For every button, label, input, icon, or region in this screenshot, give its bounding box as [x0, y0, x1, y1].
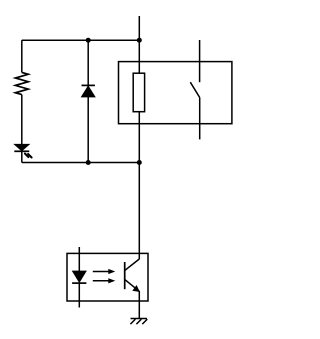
relay K1 coil: [133, 73, 144, 112]
relay contact blade: [190, 82, 199, 97]
wire coil to bottom junction and on to optocoupler collector: [138, 112, 140, 260]
ground hatch 3: [142, 319, 147, 324]
opto LED cathode bar: [72, 282, 86, 284]
wire left rail middle: [21, 95, 23, 145]
node junction top-left: [86, 38, 91, 43]
LED D2 triangle: [15, 145, 29, 151]
coupling arrow upper: [93, 269, 116, 274]
resistor R1: [15, 72, 28, 94]
diode D1 cathode bar: [82, 84, 95, 86]
LED D2 emission arrow 1: [25, 154, 29, 158]
wire diode branch: [87, 40, 89, 162]
ground hatch 1: [130, 319, 135, 324]
phototransistor Q1 collector: [125, 259, 139, 270]
opto LED anode lead: [78, 247, 80, 271]
wire top rail: [22, 39, 140, 41]
opto LED cathode lead: [78, 283, 80, 307]
opto LED triangle: [73, 271, 86, 282]
LED D2 emission arrow 2: [28, 154, 32, 158]
wire top junction to relay coil: [138, 40, 140, 73]
phototransistor Q1 base bar: [124, 262, 126, 289]
relay contact upper lead: [199, 40, 201, 82]
node junction top-right: [137, 38, 142, 43]
diode D1 triangle: [82, 86, 95, 97]
ground bar: [131, 318, 148, 320]
wire emitter to ground: [138, 291, 140, 319]
node junction bottom-right: [137, 160, 142, 165]
ground hatch 2: [136, 319, 141, 324]
wire bottom rail: [22, 162, 140, 164]
node junction bottom-left: [86, 160, 91, 165]
wire left rail lower: [21, 151, 23, 162]
LED D2 cathode bar: [14, 150, 29, 152]
coupling arrow lower: [93, 278, 116, 283]
relay contact lower lead: [199, 98, 201, 140]
optocoupler U1 case: [67, 253, 148, 301]
relay K1 case: [119, 62, 232, 124]
wire V+ stub above relay coil: [138, 16, 140, 40]
phototransistor Q1 emitter: [125, 280, 140, 292]
wire left rail upper: [21, 40, 23, 72]
